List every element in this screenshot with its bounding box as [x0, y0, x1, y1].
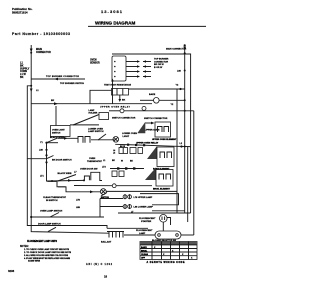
starter wire down [162, 222, 164, 231]
svg-text:LIGHT: LIGHT [123, 136, 130, 138]
wire left main bus [31, 45, 109, 233]
switch Y1 [47, 137, 79, 143]
lamp holder box [99, 113, 109, 120]
svg-text:THERMOSTAT: THERMOSTAT [87, 160, 103, 163]
node oven lamp [30, 216, 32, 218]
terminal cells 2 [130, 148, 143, 154]
header publication text [12, 7, 33, 15]
svg-text:IN SWITCH: IN SWITCH [46, 200, 58, 202]
door lamp switch blade [48, 227, 56, 231]
svg-text:L8B: L8B [76, 207, 80, 209]
node upper oven [184, 110, 186, 112]
svg-text:WIRING DIAGRAM: WIRING DIAGRAM [95, 21, 135, 26]
wire right bus D [187, 147, 189, 222]
svg-text:3. ALL WIRE COLORS ARE PER COL: 3. ALL WIRE COLORS ARE PER COLOR CODE [24, 254, 69, 257]
svg-text:SAME WIRE: SAME WIRE [28, 259, 41, 262]
svg-text:OVEN DOOR SW: OVEN DOOR SW [80, 168, 98, 170]
lower oven lamp switch label [88, 128, 104, 133]
svg-text:FLUORESCENT: FLUORESCENT [136, 230, 153, 232]
svg-text:L5: L5 [113, 153, 115, 155]
svg-text:FLUORESCENT: FLUORESCENT [139, 218, 156, 220]
svg-text:MAIN CONNECTOR: MAIN CONNECTOR [166, 48, 187, 51]
fluorescent tube pill [155, 231, 181, 239]
node L2 b [184, 146, 186, 148]
fixture box right top [140, 194, 179, 205]
oven light switch box [51, 126, 71, 137]
wire oven lamp switch [31, 213, 104, 218]
svg-text:TOP BURNER CONNECTOR: TOP BURNER CONNECTOR [46, 76, 79, 78]
svg-text:BROIL: BROIL [141, 250, 148, 252]
svg-text:BK: BK [20, 76, 24, 79]
wire right bus C [176, 89, 178, 213]
svg-text:STARTER: STARTER [141, 220, 152, 223]
oven sensor connector box [112, 56, 126, 81]
supply label stack [20, 62, 30, 80]
main harness label [36, 48, 51, 54]
fluorescent starter label [139, 218, 156, 223]
node right bus top [184, 52, 186, 54]
oven sensor label [90, 60, 100, 65]
header rule [88, 25, 206, 27]
svg-text:L7B: L7B [76, 200, 80, 202]
relay triangle 3 [145, 168, 156, 181]
fixture tube row 1 [100, 194, 153, 199]
svg-text:BK OR W: BK OR W [154, 64, 165, 66]
svg-text:2. TO CHECK DOOR LAMP SWITCH S: 2. TO CHECK DOOR LAMP SWITCH SEE NOTE [24, 251, 72, 254]
sensor lead labels [154, 59, 169, 69]
main harness arrow [30, 49, 33, 53]
wire sensor top to right corner [112, 54, 191, 213]
fixture tube row 2 [100, 204, 153, 209]
wire lamp line with circle [74, 184, 152, 188]
sensor lead 3 [126, 70, 151, 72]
svg-text:OVEN: OVEN [89, 158, 96, 160]
svg-text:SWITCH CONNECTOR: SWITCH CONNECTOR [144, 118, 168, 120]
staircase wire to clock motor [47, 181, 101, 192]
terminal labels [113, 146, 125, 155]
sensor lead 1 [126, 60, 151, 62]
clock motor circle [100, 189, 106, 195]
L1 arrow on bus [30, 89, 33, 93]
element box 1 [155, 122, 171, 137]
wire upper oven row [109, 110, 194, 112]
switch lower oven [91, 134, 115, 140]
svg-text:UPPER OVEN RELAY: UPPER OVEN RELAY [100, 106, 131, 109]
wire lamp top row [118, 212, 191, 214]
lamp holder label [89, 109, 98, 115]
svg-text:LOWER OVEN: LOWER OVEN [122, 133, 137, 135]
svg-text:BK W: BK W [120, 146, 125, 148]
wire oven light switch [70, 124, 99, 126]
svg-text:UPPER OVEN RELAY: UPPER OVEN RELAY [136, 142, 159, 145]
svg-text:FLUORESCENT LAMP UNITS: FLUORESCENT LAMP UNITS [27, 240, 57, 243]
table row labels [141, 246, 193, 260]
wiring code table [140, 242, 197, 260]
wire door switch [27, 158, 46, 160]
switch lever oven light [73, 115, 99, 126]
oven light switch stem [55, 106, 57, 126]
jog component small [84, 176, 89, 180]
svg-text:OVEN LIGHT: OVEN LIGHT [52, 129, 65, 131]
svg-text:3296: 3296 [8, 269, 15, 273]
svg-text:CLEAN: CLEAN [141, 253, 148, 256]
ballast comb [107, 232, 124, 238]
svg-text:SWITCH: SWITCH [52, 133, 61, 135]
node bake [184, 99, 186, 101]
svg-text:5995271914: 5995271914 [12, 11, 28, 15]
upper oven lamp circle 2 [142, 106, 146, 110]
motor arrow [90, 190, 94, 193]
svg-text:BROIL ELEMENT: BROIL ELEMENT [153, 188, 171, 190]
node main bus top [30, 52, 32, 54]
starter box corner [167, 218, 171, 226]
node Y2 [179, 88, 181, 90]
node L88 [184, 70, 186, 72]
staircase dark seg [48, 180, 56, 182]
svg-text:OVEN: OVEN [90, 60, 97, 62]
sensor lead 4 [126, 75, 151, 77]
right bus arrow [183, 47, 186, 51]
svg-text:UPPER OVEN ELEMENT: UPPER OVEN ELEMENT [152, 139, 177, 141]
sensor riser wire [112, 81, 114, 104]
svg-text:BLACK WIRE: BLACK WIRE [58, 172, 73, 175]
lower oven light circle [113, 137, 119, 143]
svg-text:ANI (N) C 1292: ANI (N) C 1292 [86, 263, 113, 266]
clock cells [112, 171, 124, 177]
wire right bus A [184, 49, 186, 213]
svg-text:LAMP SWITCH: LAMP SWITCH [88, 130, 104, 133]
svg-text:CONNECTOR: CONNECTOR [36, 52, 51, 54]
clean thermostat label [43, 196, 67, 202]
svg-text:BALLAST: BALLAST [101, 241, 112, 244]
staircase dark seg 2 [58, 186, 66, 188]
oven thermostat label [87, 158, 103, 163]
svg-text:TOP BURNER SWITCH: TOP BURNER SWITCH [60, 83, 84, 85]
BK arrow [54, 102, 58, 105]
riser to test box [90, 90, 112, 103]
wire LT1 row [47, 175, 85, 182]
jog component big [91, 172, 102, 180]
wire pill left [124, 234, 155, 236]
svg-text:BK DOOR SWITCH: BK DOOR SWITCH [52, 160, 72, 162]
svg-text:SWITCH CONNECTOR: SWITCH CONNECTOR [112, 118, 136, 120]
starter circle [160, 215, 168, 223]
element box 3 [156, 170, 173, 187]
sensor bottom arrow [111, 79, 114, 82]
node LT1 [51, 180, 53, 182]
riser tube rows [99, 199, 101, 218]
svg-text:NOTES:: NOTES: [20, 246, 29, 248]
clock row dots [117, 167, 135, 169]
svg-text:BK: BK [51, 100, 55, 102]
svg-text:1. TO CHECK OVEN LAMP CIRCUIT: 1. TO CHECK OVEN LAMP CIRCUIT SEE NOTE [24, 248, 70, 251]
test box arrow [118, 95, 121, 102]
sensor box pins [114, 61, 116, 78]
bracket component A [78, 137, 90, 143]
svg-text:SWITCH: SWITCH [101, 197, 110, 199]
ballast transformer line [107, 227, 148, 229]
lower oven light label [122, 133, 137, 138]
node mid 2 [45, 154, 47, 156]
wire left neutral bus [27, 86, 107, 229]
svg-text:13-3081: 13-3081 [101, 9, 123, 14]
fluorescent lamp label [136, 230, 153, 235]
wire clock row [110, 168, 144, 170]
node L1 branch [30, 85, 32, 87]
svg-text:LOWER OVEN: LOWER OVEN [88, 128, 103, 130]
element arrow 1 [145, 122, 154, 125]
terminal cells 1 [119, 148, 128, 154]
node mid [45, 149, 47, 151]
svg-text:TEST HIGH RESISTANCE: TEST HIGH RESISTANCE [104, 84, 132, 87]
arrow down mid bus [45, 162, 48, 165]
wire motor row right [106, 190, 177, 192]
bake lamp circle [154, 98, 160, 104]
svg-text:18: 18 [104, 275, 108, 279]
relay triangle 2 [147, 146, 157, 159]
svg-text:DOOR LAMP SWITCH: DOOR LAMP SWITCH [38, 222, 61, 225]
relay box 2 [157, 147, 174, 167]
node above arrow [184, 44, 186, 46]
node LT1 b [83, 179, 85, 181]
wire bake row [140, 99, 185, 101]
svg-text:BK: BK [122, 100, 126, 102]
svg-text:B OR W: B OR W [154, 67, 163, 69]
svg-text:OVEN LAMP SWITCH: OVEN LAMP SWITCH [40, 210, 63, 213]
svg-text:HOLDER: HOLDER [89, 113, 98, 115]
fixture box right outer [152, 210, 185, 212]
relay row junction dots [127, 144, 145, 147]
svg-text:TOP BURNER: TOP BURNER [154, 59, 169, 61]
node Y1 [45, 142, 47, 144]
svg-text:W: W [121, 160, 123, 162]
svg-text:BAKE: BAKE [149, 93, 156, 96]
svg-text:LAMP: LAMP [139, 232, 146, 235]
oven light switch label [52, 129, 65, 134]
sensor lead 2 [126, 65, 151, 67]
top burner arrow [54, 78, 58, 81]
svg-text:L78 UPPER LAMP: L78 UPPER LAMP [134, 196, 153, 199]
wire Y2 row [129, 88, 185, 90]
svg-text:Part Number - 19103600003: Part Number - 19103600003 [12, 32, 70, 36]
svg-text:CLEAN THERMOSTAT: CLEAN THERMOSTAT [43, 196, 67, 199]
wire top burner connector [31, 78, 85, 80]
note line 4 [24, 257, 71, 263]
node L2 a [180, 145, 182, 147]
wire pill right [181, 234, 194, 236]
svg-text:A DENOTE WIRING CODE: A DENOTE WIRING CODE [147, 261, 185, 264]
door switch blade [47, 156, 54, 159]
wire BK branch [31, 103, 152, 105]
switch small fixture [101, 193, 107, 197]
relay triangle 1 [137, 122, 145, 133]
svg-text:LAMP: LAMP [89, 109, 96, 112]
svg-text:MAIN: MAIN [36, 48, 42, 51]
wire right bus E [193, 111, 195, 235]
svg-text:BAKE: BAKE [141, 246, 147, 249]
test resistance box [112, 89, 129, 96]
wire relay row [115, 144, 190, 146]
upper oven lamp circle 1 [120, 109, 124, 113]
svg-text:CONNECTOR: CONNECTOR [154, 61, 168, 63]
mid bus wire [46, 143, 48, 182]
terminal id labels [103, 160, 133, 162]
svg-text:L88 LOWER LAMP: L88 LOWER LAMP [134, 206, 154, 209]
svg-text:SENSOR: SENSOR [90, 62, 100, 64]
